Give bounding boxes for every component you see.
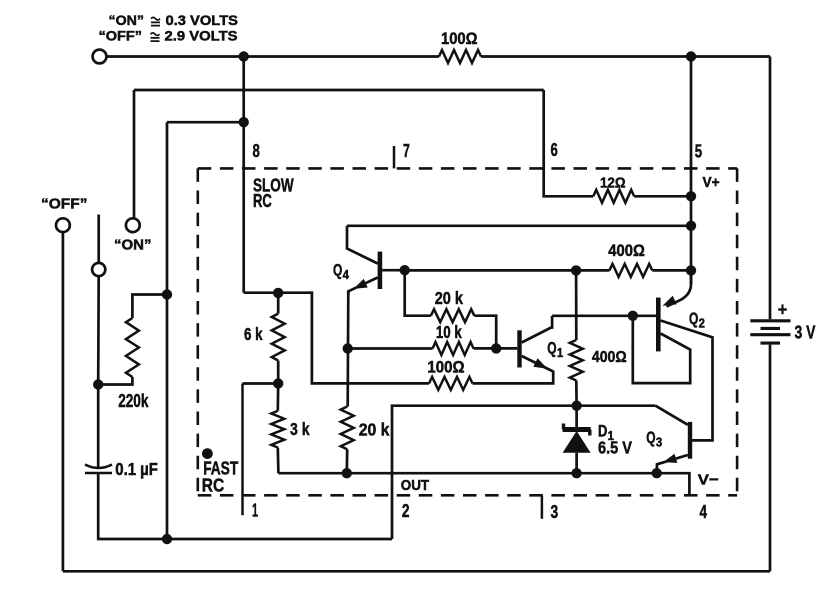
- pin 5 label: [695, 141, 702, 162]
- wire Q4 base to dot: [382, 269, 405, 272]
- label: OFF voltage note: [99, 29, 238, 44]
- label 100&#937; top: [441, 29, 478, 48]
- pin 1 stub: [241, 384, 244, 516]
- wire OUT horizontal to Q3: [577, 404, 656, 407]
- label 6.5 V: [598, 438, 632, 458]
- label 100&#937; middle: [427, 359, 464, 377]
- node 20k-lower bottom junction: [342, 468, 352, 478]
- wire input to 100-ohm resistor: [107, 55, 440, 58]
- wire Q1 collector to Q2 base: [552, 314, 656, 317]
- wire OFF down to bottom rail: [62, 232, 65, 571]
- wire Q4 emitter vertical: [346, 291, 349, 406]
- resistor 100&#937; top: [439, 50, 481, 63]
- pin 3 label: [551, 501, 559, 522]
- wire 20k-upper from Q4 base: [405, 270, 431, 316]
- label OFF terminal: [41, 196, 88, 213]
- wire capacitor to bottom inner wire: [98, 473, 392, 539]
- wire 12ohm stubs: [575, 195, 691, 198]
- node D1 bottom junction: [571, 468, 581, 478]
- label Q4: [333, 261, 349, 282]
- wire 3k bottom to rail: [276, 448, 279, 474]
- label OUT: [401, 478, 429, 494]
- label FAST RC marker dot: [202, 448, 213, 459]
- wire 400ohm-lower bottom: [575, 381, 578, 406]
- node capacitor top junction: [93, 379, 103, 389]
- svg-text:RC: RC: [253, 190, 272, 211]
- svg-text:400Ω: 400Ω: [608, 241, 645, 260]
- label battery plus: [778, 299, 788, 320]
- svg-text:+: +: [778, 299, 788, 320]
- svg-text:3 k: 3 k: [290, 419, 310, 439]
- wire 10k to Q1 base: [474, 347, 518, 350]
- wire 20k-upper to Q1 base node: [474, 316, 496, 349]
- label 20 k upper: [435, 288, 464, 308]
- label Q2: [689, 309, 705, 330]
- label FAST RC: [202, 459, 238, 496]
- pin 7 label: [403, 140, 410, 161]
- svg-text:100Ω: 100Ω: [441, 29, 478, 48]
- pin 1 label: [252, 500, 258, 521]
- svg-text:2: 2: [402, 500, 410, 521]
- svg-text:Q: Q: [689, 309, 698, 328]
- svg-text:6.5 V: 6.5 V: [598, 438, 632, 458]
- node V+ q4wire: [686, 221, 696, 231]
- label 6 k: [244, 324, 263, 344]
- wire 20k-lower bottom: [345, 449, 348, 473]
- node 400ohm-lower top junction: [571, 265, 581, 275]
- svg-text:6 k: 6 k: [244, 324, 263, 344]
- wire ON-branch down to ON terminal: [133, 90, 136, 218]
- svg-text:Q: Q: [333, 261, 342, 280]
- transistor Q3: [656, 406, 693, 474]
- wire pin6 vertical: [544, 90, 575, 196]
- transistor Q2: [656, 270, 691, 351]
- resistor 400&#937; upper: [609, 264, 652, 277]
- svg-text:5: 5: [695, 141, 702, 162]
- arrow Q3 emitter: [663, 454, 677, 463]
- label Q1: [547, 338, 563, 359]
- resistor 400&#937; lower: [570, 340, 583, 381]
- wire x167-junction to 220k top: [132, 295, 167, 319]
- wire battery bottom: [769, 345, 772, 572]
- IC package dashed border: [198, 168, 737, 495]
- svg-text:100Ω: 100Ω: [427, 359, 464, 377]
- wire ON-branch horizontal y90: [134, 89, 544, 92]
- resistor 20 k lower: [341, 407, 354, 450]
- label 0.1 uF: [115, 459, 158, 479]
- label ON terminal: [114, 237, 152, 254]
- node 6k bottom junction: [273, 378, 283, 388]
- svg-text:V−: V−: [698, 471, 719, 488]
- battery B1 3V: [750, 321, 790, 343]
- pin 3 stub: [541, 496, 544, 519]
- label 10 k: [436, 322, 462, 342]
- congruent symbol for ON note: [151, 17, 160, 25]
- pin 8 label: [253, 140, 260, 161]
- resistor 12&#937;: [593, 190, 634, 203]
- terminal OFF: [56, 218, 70, 232]
- pin 2 label: [402, 500, 410, 521]
- wire Q2 collector2 loop: [633, 316, 690, 383]
- svg-text:20 k: 20 k: [359, 419, 390, 439]
- wire cap node down to capacitor: [97, 385, 100, 470]
- resistor 10 k: [433, 342, 474, 355]
- diode D1 zener: [563, 406, 591, 474]
- node V+ 12ohm: [686, 191, 696, 201]
- svg-text:12Ω: 12Ω: [600, 174, 626, 191]
- node Q3 emitter junction: [652, 468, 662, 478]
- wire Q4 collector top rail: [347, 224, 691, 227]
- wire pin8 rail to 100ohm: [244, 293, 429, 384]
- svg-text:4: 4: [343, 268, 349, 282]
- svg-text:1: 1: [557, 346, 563, 360]
- label SLOW RC: [253, 175, 294, 212]
- wire 6k bottom to pin1: [243, 382, 279, 385]
- svg-text:RC: RC: [202, 475, 224, 495]
- svg-text:8: 8: [253, 140, 260, 161]
- wire 10k from Q4-emitter node: [348, 347, 433, 350]
- svg-text:V+: V+: [703, 174, 720, 191]
- node Q2 base junction: [628, 311, 638, 321]
- node x167 bottom junction: [162, 534, 172, 544]
- svg-text:2: 2: [699, 317, 705, 331]
- wire Q2 collector to Q3: [661, 321, 713, 441]
- resistor 220k: [126, 318, 139, 377]
- svg-text:Q: Q: [547, 338, 556, 357]
- terminal mid-wire contact: [92, 263, 105, 276]
- node V+ 400ohm: [686, 265, 696, 275]
- node pin8 wire junction: [239, 117, 249, 127]
- wire battery top: [769, 57, 772, 320]
- node D1 top junction: [571, 401, 581, 411]
- svg-text:1: 1: [252, 500, 258, 521]
- node input junction: [239, 51, 249, 61]
- pin 7 stub: [393, 146, 396, 168]
- transistor Q1: [517, 316, 553, 375]
- pin 4 label: [700, 501, 708, 522]
- pin 6 label: [551, 139, 558, 160]
- svg-text:400Ω: 400Ω: [592, 349, 627, 366]
- input terminal: [93, 50, 107, 64]
- label 20 k lower: [359, 419, 390, 439]
- svg-text:3: 3: [551, 501, 559, 522]
- svg-text:4: 4: [700, 501, 708, 522]
- label V+: [703, 174, 720, 191]
- node x167 switch branch: [162, 289, 172, 299]
- label 220k: [118, 390, 149, 411]
- svg-text:OUT: OUT: [401, 478, 429, 494]
- wire left vertical x167: [166, 122, 169, 539]
- resistor 20 k upper: [431, 309, 474, 322]
- svg-text:6: 6: [551, 139, 558, 160]
- node Q1 base junction: [491, 343, 501, 353]
- wire switch arm upper segment: [97, 215, 100, 263]
- svg-text:20 k: 20 k: [435, 288, 464, 308]
- svg-text:0.1 µF: 0.1 µF: [115, 459, 158, 479]
- wire Q4base to 400ohm junction: [405, 269, 576, 272]
- resistor 3 k: [271, 411, 284, 448]
- wire bottom outer rail: [63, 570, 770, 573]
- label V-: [698, 471, 719, 488]
- node 6k top junction: [273, 288, 283, 298]
- svg-text:10 k: 10 k: [436, 322, 462, 342]
- resistor 6 k: [272, 314, 285, 361]
- node Q4 base junction: [400, 265, 410, 275]
- svg-text:Q: Q: [646, 428, 655, 447]
- wire 100-ohm to battery corner: [481, 55, 770, 58]
- label: ON voltage note: [109, 13, 239, 28]
- wire junction down to pin 8: [242, 57, 245, 293]
- svg-text:7: 7: [403, 140, 410, 161]
- label 3 k: [290, 419, 310, 439]
- node pin5 top junction: [686, 51, 696, 61]
- svg-text:“OFF”: “OFF”: [41, 196, 88, 213]
- svg-text:“ON”: “ON”: [109, 13, 145, 28]
- arrow Q2 emitter: [663, 296, 677, 306]
- transistor Q4: [347, 226, 382, 295]
- svg-text:0.3 VOLTS: 0.3 VOLTS: [166, 13, 239, 28]
- svg-text:3: 3: [656, 435, 662, 449]
- svg-text:220k: 220k: [118, 390, 149, 411]
- wire V- rail: [278, 473, 689, 495]
- svg-text:“ON”: “ON”: [114, 237, 152, 254]
- wire 220k bottom to cap node: [98, 377, 132, 385]
- resistor 100&#937; middle: [429, 377, 473, 390]
- label 12&#937;: [600, 174, 626, 191]
- label 400&#937; lower: [592, 349, 627, 366]
- label 3 V: [795, 322, 816, 343]
- label Q3: [646, 428, 662, 449]
- svg-text:“OFF”: “OFF”: [99, 29, 143, 44]
- label D1: [598, 421, 614, 442]
- svg-text:3 V: 3 V: [795, 322, 816, 343]
- wire 400ohm-lower top: [575, 270, 578, 340]
- wire 400ohm-upper stubs: [576, 269, 691, 272]
- svg-text:2.9 VOLTS: 2.9 VOLTS: [165, 29, 238, 44]
- wire 6k bottom to 3k: [276, 384, 279, 411]
- wire switch arm lower segment: [97, 276, 100, 384]
- wire y122 stub: [167, 121, 244, 124]
- wire 100ohm to Q1 emitter: [473, 374, 554, 383]
- wire OUT net: [392, 406, 577, 539]
- node 10k branch: [343, 343, 353, 353]
- terminal ON: [126, 218, 140, 232]
- label 400&#937; upper: [608, 241, 645, 260]
- capacitor 0.1uF: [85, 465, 112, 474]
- congruent symbol for OFF note: [151, 33, 160, 41]
- wire V+ vertical: [690, 57, 693, 285]
- arrow Q1 emitter: [533, 358, 547, 368]
- wire 6k stubs: [277, 293, 280, 384]
